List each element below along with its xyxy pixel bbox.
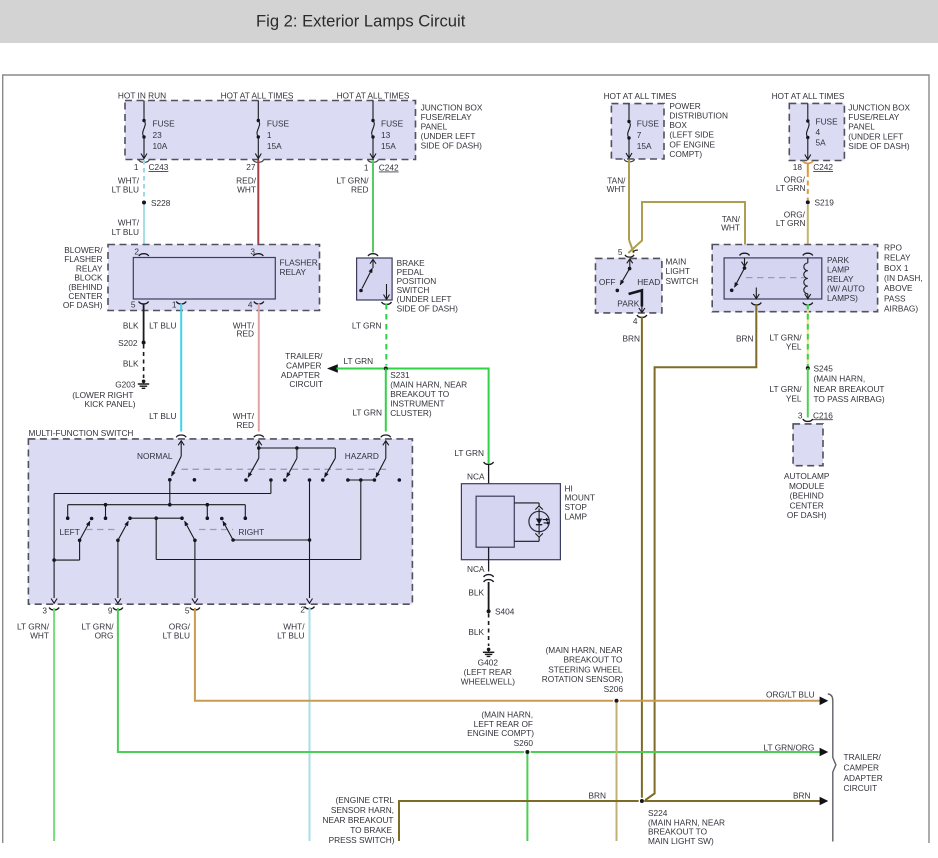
- svg-text:BLK: BLK: [123, 320, 139, 330]
- HMSL bottom lead NCA: [467, 547, 494, 582]
- svg-text:BRN: BRN: [588, 791, 606, 801]
- svg-text:NCA: NCA: [467, 471, 485, 481]
- svg-text:(MAIN HARN, NEAR: (MAIN HARN, NEAR: [390, 379, 467, 389]
- wire LT GRN/YEL S245 to C216: [770, 368, 808, 417]
- svg-text:LT BLU: LT BLU: [277, 631, 304, 641]
- svg-text:JUNCTION BOX: JUNCTION BOX: [848, 103, 910, 113]
- svg-text:10A: 10A: [153, 141, 168, 151]
- wire BRN engine ctrl corner to S224: [323, 791, 641, 845]
- MFS pin top LT GRN hazard entry: [345, 435, 391, 461]
- svg-text:OF DASH): OF DASH): [787, 510, 827, 520]
- svg-text:27: 27: [246, 162, 256, 172]
- trailer/camper adapter circuit brace: [828, 694, 883, 842]
- svg-text:FUSE: FUSE: [153, 118, 176, 128]
- svg-text:WHT: WHT: [237, 185, 256, 195]
- svg-text:LT GRN: LT GRN: [776, 183, 806, 193]
- ground G203: [72, 380, 149, 410]
- svg-text:YEL: YEL: [786, 342, 802, 352]
- RPO relay box 1: [712, 242, 923, 313]
- svg-text:MODULE: MODULE: [789, 481, 825, 491]
- splice S228: [142, 198, 171, 208]
- svg-text:9: 9: [108, 606, 113, 616]
- svg-text:NEAR BREAKOUT: NEAR BREAKOUT: [814, 384, 885, 394]
- wire WHT/RED flasher pin4 to MFS: [233, 304, 259, 432]
- svg-text:S231: S231: [390, 370, 410, 380]
- svg-text:C242: C242: [379, 163, 399, 173]
- hot bus labels: [118, 90, 410, 100]
- svg-text:HAZARD: HAZARD: [345, 451, 379, 461]
- panel location label: [421, 102, 483, 150]
- svg-text:ADAPTER: ADAPTER: [844, 773, 883, 783]
- junction box fuse/relay panel (left): [125, 101, 416, 160]
- svg-text:RELAY: RELAY: [280, 267, 307, 277]
- MLS switch internals: [599, 259, 660, 313]
- svg-text:LAMP: LAMP: [827, 265, 850, 275]
- svg-text:5A: 5A: [816, 138, 827, 148]
- wire BRN S224 to trailer: [644, 791, 828, 806]
- wire BRN relay to S224: [644, 304, 756, 801]
- splice S245: [806, 364, 885, 404]
- pin 27 connector: [246, 160, 263, 172]
- svg-text:C242: C242: [813, 162, 833, 172]
- svg-text:CENTER: CENTER: [790, 500, 824, 510]
- svg-text:RED: RED: [236, 420, 254, 430]
- svg-text:5: 5: [131, 300, 136, 310]
- svg-text:PRESS SWITCH): PRESS SWITCH): [329, 835, 395, 845]
- MFS exit pin 2: [300, 599, 314, 615]
- wire ORG/LT GRN S219 to park lamp relay: [776, 205, 808, 252]
- mechanical link dashed line: [182, 468, 389, 470]
- svg-text:HOT AT ALL TIMES: HOT AT ALL TIMES: [221, 90, 294, 100]
- svg-text:PANEL: PANEL: [848, 122, 875, 132]
- brake pedal position switch: [357, 254, 459, 314]
- svg-text:(BEHIND: (BEHIND: [790, 491, 824, 501]
- svg-text:LAMPS): LAMPS): [827, 293, 858, 303]
- svg-text:LT BLU: LT BLU: [112, 185, 139, 195]
- svg-text:HOT AT ALL TIMES: HOT AT ALL TIMES: [772, 91, 845, 101]
- wire LT GRN/YEL dashed relay to S245: [770, 304, 808, 366]
- svg-text:(W/ AUTO: (W/ AUTO: [827, 284, 865, 294]
- wire LT GRN S231 branch left: [337, 368, 386, 370]
- svg-text:LT GRN: LT GRN: [454, 448, 484, 458]
- fuse F7 15A: [626, 104, 659, 158]
- svg-text:RELAY: RELAY: [884, 253, 911, 263]
- svg-text:5: 5: [185, 606, 190, 616]
- svg-text:STEERING WHEEL: STEERING WHEEL: [548, 664, 623, 674]
- svg-text:HOT IN RUN: HOT IN RUN: [118, 90, 166, 100]
- fuse F1 15A: [255, 101, 289, 159]
- svg-text:BREAKOUT TO: BREAKOUT TO: [563, 655, 623, 665]
- multi-function switch box: [28, 428, 412, 604]
- fuse F4 5A: [805, 103, 838, 159]
- svg-text:AIRBAG): AIRBAG): [884, 304, 918, 314]
- svg-text:SWITCH: SWITCH: [666, 276, 699, 286]
- MFS exit pin 3: [42, 599, 59, 616]
- bus B wire: [66, 503, 247, 520]
- svg-text:LT BLU: LT BLU: [149, 411, 176, 421]
- MFS pin top LT BLU entry: [176, 435, 186, 456]
- connector C242 pin 18: [793, 161, 834, 172]
- svg-text:WHT: WHT: [607, 184, 626, 194]
- fuse F13 15A: [370, 101, 404, 159]
- svg-text:4: 4: [633, 316, 638, 326]
- svg-text:FUSE: FUSE: [637, 118, 660, 128]
- contact dot: [193, 478, 197, 482]
- header title bar: [0, 0, 938, 43]
- switch arm mid: [283, 458, 297, 482]
- wire LT GRN/RED fuse13 to brake switch: [337, 160, 373, 253]
- svg-text:MAIN LIGHT SW): MAIN LIGHT SW): [648, 836, 714, 846]
- wire RED/WHT fuse1 to flasher pin 3: [236, 160, 258, 253]
- svg-text:HOT AT ALL TIMES: HOT AT ALL TIMES: [604, 91, 677, 101]
- power distribution box: [604, 91, 728, 159]
- svg-text:7: 7: [637, 130, 642, 140]
- svg-text:LT BLU: LT BLU: [112, 227, 139, 237]
- wire BLK dashed S404 to G402: [468, 614, 488, 647]
- LEFT switch arm: [54, 517, 93, 560]
- wire LT GRN dashed brake switch to S231: [352, 304, 386, 366]
- wire WHT/LT BLU dashed C243 to S228: [112, 160, 144, 200]
- MFS normal switch arm: [137, 451, 181, 505]
- wire LT GRN/WHT MFS pin3 down: [17, 608, 54, 841]
- svg-text:WHT: WHT: [30, 631, 49, 641]
- svg-text:5: 5: [618, 247, 623, 257]
- svg-text:BLK: BLK: [468, 588, 484, 598]
- right dashed link: [199, 529, 233, 531]
- svg-text:18: 18: [793, 162, 803, 172]
- ground G402: [461, 648, 515, 687]
- svg-text:(LEFT REAR: (LEFT REAR: [464, 667, 512, 677]
- flasher pin 5: [131, 300, 149, 311]
- svg-text:LT GRN: LT GRN: [776, 218, 806, 228]
- svg-text:C216: C216: [813, 410, 833, 420]
- wire WHT/LT BLU MFS pin2 down: [277, 607, 309, 841]
- svg-text:RIGHT: RIGHT: [238, 527, 264, 537]
- svg-text:HOT AT ALL TIMES: HOT AT ALL TIMES: [337, 90, 410, 100]
- splice S206: [542, 645, 624, 841]
- svg-text:SIDE OF DASH): SIDE OF DASH): [421, 141, 483, 151]
- svg-text:PANEL: PANEL: [421, 122, 448, 132]
- svg-text:(UNDER LEFT: (UNDER LEFT: [848, 131, 903, 141]
- splice S224: [639, 798, 725, 847]
- connector at HMSL (NCA): [467, 462, 494, 496]
- svg-text:CAMPER: CAMPER: [844, 763, 880, 773]
- svg-text:15A: 15A: [267, 141, 282, 151]
- svg-text:LIGHT: LIGHT: [666, 266, 690, 276]
- splice S219: [806, 198, 834, 208]
- svg-text:NORMAL: NORMAL: [137, 451, 173, 461]
- svg-text:G203: G203: [115, 380, 136, 390]
- svg-text:2: 2: [134, 246, 139, 256]
- contact to bus A: [269, 478, 273, 493]
- park lamp relay coil: [803, 253, 813, 305]
- wire TAN/WHT branch MLS pin5 to park lamp relay: [628, 202, 745, 253]
- svg-text:ORG/LT BLU: ORG/LT BLU: [766, 690, 815, 700]
- svg-text:NEAR BREAKOUT: NEAR BREAKOUT: [323, 815, 394, 825]
- left contact strip: [128, 516, 184, 559]
- svg-text:FUSE/RELAY: FUSE/RELAY: [421, 112, 472, 122]
- svg-text:DISTRIBUTION: DISTRIBUTION: [669, 111, 728, 121]
- svg-text:RED: RED: [236, 329, 254, 339]
- svg-text:BLK: BLK: [123, 358, 139, 368]
- svg-text:BRN: BRN: [793, 791, 811, 801]
- flasher pin 3: [250, 246, 263, 256]
- svg-text:SENSOR HARN,: SENSOR HARN,: [331, 805, 394, 815]
- splice S260: [467, 710, 534, 842]
- hi mount stop lamp U-HMSL: [461, 483, 595, 559]
- hazard feed down to lower bus: [156, 480, 361, 560]
- svg-text:3: 3: [42, 606, 47, 616]
- svg-text:(IN DASH,: (IN DASH,: [884, 273, 923, 283]
- svg-text:S404: S404: [495, 606, 515, 616]
- svg-text:2: 2: [300, 605, 305, 615]
- svg-text:CIRCUIT: CIRCUIT: [289, 379, 323, 389]
- relay mechanical link dashed: [746, 277, 806, 279]
- svg-text:BLK: BLK: [468, 627, 484, 637]
- switch arm from WHT/RED pin: [244, 458, 259, 482]
- wire BLK dashed S202 to G203: [123, 345, 144, 379]
- svg-text:BRN: BRN: [736, 334, 754, 344]
- svg-text:Fig 2: Exterior Lamps Circuit: Fig 2: Exterior Lamps Circuit: [256, 12, 466, 31]
- svg-text:LT GRN/ORG: LT GRN/ORG: [764, 742, 815, 752]
- svg-text:MAIN: MAIN: [666, 256, 687, 266]
- fuse F23 10A: [141, 101, 175, 159]
- svg-text:PARK: PARK: [617, 298, 639, 308]
- svg-text:POWER: POWER: [669, 101, 700, 111]
- wire BRN MLS pin4 down: [622, 317, 641, 801]
- svg-text:RPO: RPO: [884, 242, 903, 252]
- pin2 feed line: [308, 478, 312, 598]
- junction box fuse/relay panel (right): [772, 91, 911, 161]
- turn signal arm to pin 9: [116, 521, 129, 598]
- svg-text:BREAKOUT TO: BREAKOUT TO: [390, 389, 450, 399]
- svg-text:FUSE: FUSE: [381, 118, 404, 128]
- autolamp module: [784, 424, 830, 520]
- svg-text:S228: S228: [151, 198, 171, 208]
- bus A wire: [52, 494, 271, 599]
- svg-text:ENGINE COMPT): ENGINE COMPT): [467, 728, 534, 738]
- svg-text:BOX: BOX: [669, 120, 687, 130]
- svg-text:OF ENGINE: OF ENGINE: [669, 139, 715, 149]
- svg-text:4: 4: [816, 127, 821, 137]
- splice S231: [384, 367, 467, 418]
- svg-text:FUSE: FUSE: [816, 117, 839, 127]
- svg-text:(MAIN HARN,: (MAIN HARN,: [814, 374, 866, 384]
- svg-text:FUSE: FUSE: [267, 118, 290, 128]
- svg-text:1: 1: [172, 300, 177, 310]
- svg-text:3: 3: [250, 246, 255, 256]
- svg-text:MULTI-FUNCTION SWITCH: MULTI-FUNCTION SWITCH: [29, 428, 134, 438]
- svg-text:S202: S202: [118, 338, 138, 348]
- splice S202: [118, 338, 145, 348]
- svg-text:TO BRAKE: TO BRAKE: [350, 825, 392, 835]
- svg-text:JUNCTION BOX: JUNCTION BOX: [421, 102, 483, 112]
- svg-text:PARK: PARK: [827, 255, 849, 265]
- svg-text:LT GRN: LT GRN: [352, 320, 382, 330]
- svg-text:ROTATION SENSOR): ROTATION SENSOR): [542, 674, 624, 684]
- hazard contact row: [346, 478, 401, 482]
- svg-text:TRAILER/: TRAILER/: [844, 752, 882, 762]
- svg-text:LT BLU: LT BLU: [149, 320, 176, 330]
- svg-text:SIDE OF DASH): SIDE OF DASH): [397, 303, 459, 313]
- svg-text:SIDE OF DASH): SIDE OF DASH): [848, 141, 910, 151]
- RIGHT switch arm: [220, 517, 310, 542]
- flasher pin 2: [134, 246, 148, 256]
- svg-text:(UNDER LEFT: (UNDER LEFT: [421, 131, 476, 141]
- wire LT GRN/ORG MFS pin9 to S260 and trailer: [82, 608, 829, 756]
- svg-text:NCA: NCA: [467, 564, 485, 574]
- connector C242 pin 1: [364, 160, 399, 173]
- svg-text:OFF: OFF: [599, 277, 616, 287]
- svg-text:RED: RED: [351, 185, 369, 195]
- svg-text:LEFT: LEFT: [60, 527, 80, 537]
- blower/flasher relay block: [63, 245, 320, 311]
- svg-text:COMPT): COMPT): [669, 149, 702, 159]
- park lamp relay switch side: [730, 253, 750, 292]
- svg-text:FLASHER: FLASHER: [280, 257, 318, 267]
- svg-text:ABOVE: ABOVE: [884, 283, 913, 293]
- svg-text:(ENGINE CTRL: (ENGINE CTRL: [335, 795, 394, 805]
- flasher pin 1: [172, 300, 186, 310]
- svg-text:WHEELWELL): WHEELWELL): [461, 676, 515, 686]
- svg-text:LAMP: LAMP: [565, 512, 588, 522]
- svg-text:AUTOLAMP: AUTOLAMP: [784, 471, 830, 481]
- turn signal arm to pin 5: [184, 521, 196, 598]
- svg-text:15A: 15A: [381, 141, 396, 151]
- wire ORG/LT GRN dashed C242 to S219: [776, 172, 808, 200]
- svg-text:TO PASS AIRBAG): TO PASS AIRBAG): [814, 394, 885, 404]
- wire WHT/LT BLU S228 to flasher pin 2: [112, 205, 144, 253]
- hazard switch arm: [373, 458, 386, 482]
- svg-text:LT GRN: LT GRN: [352, 407, 382, 417]
- connector C243 pin 1: [134, 160, 169, 172]
- HMSL bulb: [514, 503, 549, 541]
- svg-text:HEAD: HEAD: [637, 277, 660, 287]
- svg-text:CLUSTER): CLUSTER): [390, 408, 432, 418]
- svg-text:1: 1: [267, 130, 272, 140]
- wire TAN/WHT fuse7 to MLS pin5: [607, 159, 635, 253]
- splice S404: [487, 606, 515, 616]
- relay output pin: [751, 288, 761, 305]
- svg-text:ORG: ORG: [95, 631, 114, 641]
- svg-text:13: 13: [381, 130, 391, 140]
- MFS exit pin 9: [108, 599, 123, 616]
- switch arm right of mid: [321, 458, 335, 482]
- svg-text:PASS: PASS: [884, 293, 906, 303]
- trailer/camper adapter arrow (left): [281, 351, 373, 389]
- wire ORG/LT BLU MFS pin5 to S206 and trailer: [163, 608, 829, 705]
- svg-text:OF DASH): OF DASH): [63, 300, 103, 310]
- svg-text:1: 1: [364, 163, 369, 173]
- svg-text:(MAIN HARN, NEAR: (MAIN HARN, NEAR: [546, 645, 623, 655]
- svg-text:LT BLU: LT BLU: [163, 631, 190, 641]
- wire LT BLU flasher pin1 to MFS: [149, 304, 181, 432]
- svg-text:S245: S245: [814, 364, 834, 374]
- svg-text:BOX 1: BOX 1: [884, 263, 909, 273]
- flasher pin 4: [248, 300, 264, 310]
- svg-text:3: 3: [798, 410, 803, 420]
- svg-text:1: 1: [134, 162, 139, 172]
- svg-text:CIRCUIT: CIRCUIT: [844, 783, 878, 793]
- svg-text:C243: C243: [149, 162, 169, 172]
- svg-text:INSTRUMENT: INSTRUMENT: [390, 398, 444, 408]
- svg-text:KICK PANEL): KICK PANEL): [84, 399, 135, 409]
- svg-text:S260: S260: [514, 738, 534, 748]
- wire BLK flasher pin5 to S202: [123, 304, 144, 342]
- MFS pin top WHT/RED entry: [254, 435, 335, 458]
- svg-text:23: 23: [153, 130, 163, 140]
- left dashed link: [86, 529, 119, 531]
- svg-text:BRN: BRN: [622, 334, 640, 344]
- main light switch: [596, 247, 699, 313]
- wire LT GRN S231 to MFS hazard: [352, 369, 385, 432]
- svg-text:LT GRN: LT GRN: [344, 356, 374, 366]
- svg-text:4: 4: [248, 300, 253, 310]
- MFS exit pin 5: [185, 599, 200, 616]
- svg-text:(LEFT SIDE: (LEFT SIDE: [669, 130, 714, 140]
- MLS pin 4: [633, 315, 647, 326]
- svg-text:RELAY: RELAY: [827, 274, 854, 284]
- svg-text:FUSE/RELAY: FUSE/RELAY: [848, 112, 899, 122]
- wire LT GRN S231 branch right to HMSL: [386, 369, 489, 464]
- svg-text:WHT: WHT: [721, 223, 740, 233]
- wire BLK HMSL to S404: [468, 582, 488, 610]
- svg-text:15A: 15A: [637, 141, 652, 151]
- svg-text:S206: S206: [604, 684, 624, 694]
- svg-text:YEL: YEL: [786, 393, 802, 403]
- connector C216 pin 3: [798, 410, 833, 421]
- svg-text:S219: S219: [815, 198, 835, 208]
